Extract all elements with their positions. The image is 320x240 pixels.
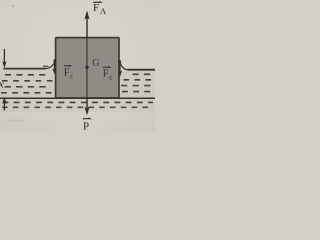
force arrow F_c left head: [52, 68, 56, 74]
label F_c right vector bar: [103, 65, 110, 68]
label P vector bar: [83, 117, 90, 120]
liquid dashes bottom row 2: [2, 106, 153, 108]
liquid dashes right row 2: [124, 79, 156, 81]
force arrow F_A head: [84, 11, 89, 20]
liquid dashes bottom row 1: [3, 101, 154, 103]
label F_c left vector bar: [64, 64, 71, 67]
faint smudge: [8, 120, 24, 122]
liquid surface left flat: [4, 68, 46, 70]
center line through block: [86, 38, 88, 99]
block (floating body): [56, 38, 119, 98]
label F_A vector bar: [93, 0, 101, 3]
liquid dashes left pocket: [43, 65, 49, 67]
force arrow P shaft: [86, 98, 88, 110]
force arrow F_A shaft: [86, 17, 88, 38]
contact node right: [118, 60, 121, 63]
liquid dashes left row 4: [1, 92, 54, 94]
liquid dashes left row 2: [2, 80, 53, 82]
node G (center of gravity dot): [85, 66, 88, 69]
paper speck: [12, 5, 14, 7]
force arrow F_c left shaft: [54, 62, 56, 71]
dimension x lower line: [3, 102, 5, 111]
liquid surface right flat: [128, 69, 156, 71]
liquid surface left meniscus curve: [45, 61, 55, 68]
contact node left: [54, 59, 57, 62]
liquid dashes left row 3: [5, 86, 52, 88]
liquid tint below: [0, 98, 155, 112]
liquid dashes right row 3: [121, 85, 155, 87]
paper background: [0, 0, 155, 131]
bottom level line (block bottom extended): [0, 97, 155, 99]
paper grain overlay: [0, 0, 155, 131]
dimension x upper arrowhead: [2, 61, 6, 68]
liquid tint right: [119, 70, 155, 98]
liquid dashes right row 4: [122, 91, 155, 93]
dimension x lower arrowhead: [2, 97, 6, 104]
liquid surface right meniscus curve: [120, 62, 128, 70]
dimension x upper line: [3, 49, 5, 63]
force arrow F_c right head: [118, 70, 122, 76]
force arrow P head: [84, 107, 89, 116]
liquid tint left: [0, 69, 55, 98]
force arrow F_c right shaft: [119, 63, 121, 73]
liquid dashes right row 1: [133, 73, 156, 75]
liquid dashes left row 1: [5, 74, 50, 76]
